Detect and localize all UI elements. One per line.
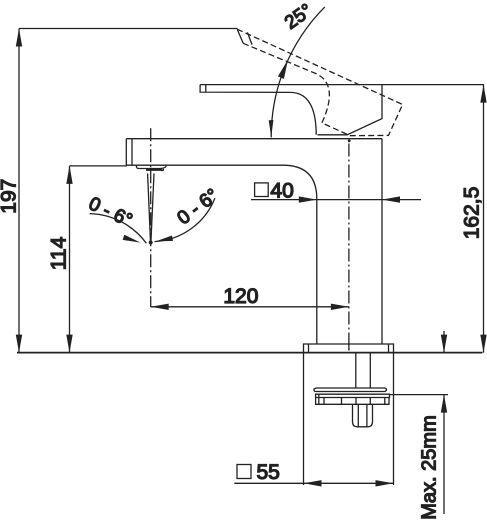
base plate inner end lines (309, 344, 389, 353)
base plate outline (304, 344, 394, 353)
spacer bar ticks (319, 394, 385, 404)
svg-text:40: 40 (270, 180, 293, 203)
svg-text:Max. 25mm: Max. 25mm (419, 415, 441, 519)
dim max25 extension line (washer top) (390, 394, 448, 396)
swivel arc right arrowhead (155, 236, 173, 242)
spout top line (126, 138, 382, 140)
dim 40 arrow right (pointing left) (382, 196, 400, 202)
dim 40 arrow left (pointing right) (299, 196, 317, 202)
nut facet lines (358, 404, 367, 426)
dim 197 extension line top (19, 28, 238, 30)
dim 120 arrow right (331, 304, 349, 310)
water stream V right line (151, 174, 154, 243)
dim square-40 line (251, 199, 421, 201)
dim 162,5 line (483, 85, 485, 353)
dim 197 arrow top (16, 29, 22, 47)
aerator slot thick line (146, 168, 163, 171)
handle pivot dot (348, 139, 351, 142)
counter top line (17, 352, 483, 354)
svg-text:0 - 6°: 0 - 6° (85, 193, 135, 231)
horseshoe washer top bar (314, 388, 387, 392)
base plate center tick (348, 345, 350, 350)
washer second bar (316, 394, 390, 397)
swivel arc left arrowhead (123, 235, 141, 243)
svg-text:114: 114 (48, 236, 71, 270)
dim 40 square symbol (255, 183, 269, 197)
dim 197 line (18, 29, 20, 353)
spout tip end cap outer (125, 139, 127, 166)
spout tip end cap inner (131, 139, 133, 166)
body left edge (316, 199, 318, 344)
dim 55 square symbol (237, 465, 251, 479)
aerator outline (136, 165, 166, 168)
dim max25 line below (443, 395, 445, 514)
svg-text:25°: 25° (281, 0, 317, 34)
svg-text:55: 55 (257, 461, 280, 484)
svg-text:197: 197 (0, 179, 21, 214)
dim max25 arrow up at washer (441, 395, 447, 413)
threaded shank right edge (369, 353, 371, 388)
left extension wall below counter (303, 353, 305, 485)
dim 114 extension line (70, 165, 128, 167)
dim 114 line (69, 166, 71, 353)
dim max25 arrow down at counter (441, 335, 447, 353)
dim 162,5 arrow bottom (480, 335, 486, 353)
dim max25 upper stub above counter (443, 331, 445, 353)
handle lever dashed (raised 25 deg) (237, 29, 402, 136)
dim 114 arrow top (66, 166, 72, 184)
25 deg arc upper arrowhead (278, 60, 288, 79)
dim square-55 line (234, 482, 393, 484)
mounting nut (353, 404, 373, 427)
swivel arc right (155, 198, 215, 241)
swivel arc left (90, 214, 147, 244)
dim 120 line (151, 306, 349, 308)
water stream V left line (148, 174, 151, 243)
dim 114 arrow bottom (66, 335, 72, 353)
dim 197 arrow bottom (16, 335, 22, 353)
svg-text:162,5: 162,5 (461, 187, 484, 240)
spout underside and body front rounded corner (126, 165, 316, 199)
spacer bar (316, 398, 389, 405)
dim 162,5 arrow top (480, 85, 486, 103)
25 deg arc lower arrowhead (269, 120, 274, 137)
threaded shank left edge (355, 353, 357, 388)
body right edge (381, 139, 383, 344)
25 deg dimension arc (271, 7, 325, 138)
body centerline (348, 144, 350, 352)
dim 55 arrow right (pointing right) (376, 480, 394, 486)
svg-text:120: 120 (223, 285, 258, 308)
dim 162,5 extension line (handle top to right) (382, 84, 484, 86)
handle lever solid (rest position) (200, 85, 382, 135)
stream junction dot (149, 241, 153, 245)
spout centerline (150, 128, 152, 307)
right extension wall below counter (393, 353, 395, 485)
dim 120 arrow left (151, 304, 169, 310)
dim 55 arrow left (pointing left) (304, 480, 322, 486)
